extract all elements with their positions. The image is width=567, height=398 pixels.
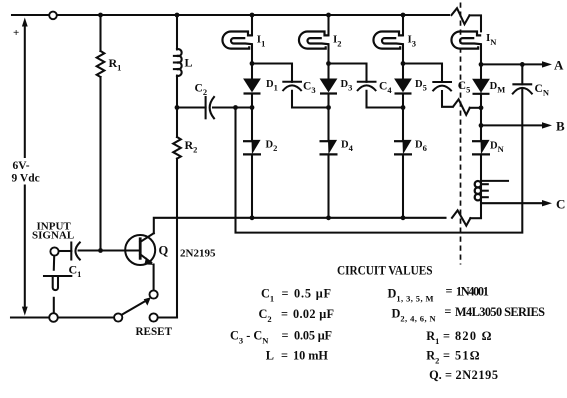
svg-text:2N2195: 2N2195	[456, 368, 499, 382]
svg-text:10 mH: 10 mH	[293, 349, 328, 363]
svg-text:L: L	[185, 56, 193, 70]
svg-text:=: =	[443, 329, 450, 343]
svg-text:2N2195: 2N2195	[180, 248, 216, 260]
svg-text:SIGNAL: SIGNAL	[32, 230, 74, 242]
svg-text:0.5 μF: 0.5 μF	[294, 287, 331, 301]
svg-text:M4L3050 SERIES: M4L3050 SERIES	[455, 305, 545, 319]
svg-text:=: =	[446, 284, 453, 298]
svg-text:+: +	[13, 27, 19, 39]
svg-text:=: =	[443, 349, 450, 363]
svg-text:=: =	[444, 305, 451, 319]
svg-text:CIRCUIT VALUES: CIRCUIT VALUES	[337, 263, 433, 278]
svg-text:Q: Q	[159, 244, 169, 258]
svg-text:A: A	[554, 58, 564, 73]
svg-text:9 Vdc: 9 Vdc	[12, 173, 40, 185]
svg-text:RESET: RESET	[136, 326, 173, 338]
svg-text:=: =	[445, 368, 452, 382]
svg-text:0.05 μF: 0.05 μF	[294, 329, 332, 343]
svg-text:=: =	[281, 349, 288, 363]
svg-text:C: C	[556, 197, 565, 212]
svg-text:=: =	[282, 329, 289, 343]
svg-text:B: B	[556, 119, 565, 134]
svg-text:Q.: Q.	[429, 368, 442, 382]
svg-text:6V-: 6V-	[13, 160, 30, 172]
svg-text:=: =	[281, 307, 288, 321]
svg-text:=: =	[282, 287, 289, 301]
svg-text:51Ω: 51Ω	[455, 349, 480, 363]
svg-text:0.02 μF: 0.02 μF	[293, 307, 334, 321]
svg-text:L: L	[266, 349, 274, 363]
svg-text:1N4001: 1N4001	[456, 285, 489, 299]
svg-text:820 Ω: 820 Ω	[455, 329, 492, 343]
